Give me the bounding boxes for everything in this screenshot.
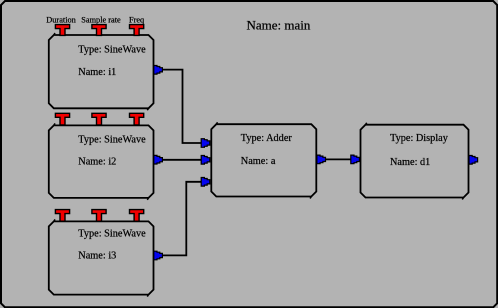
input port Freq of i1 (red T) xyxy=(129,25,143,36)
svg-text:Duration: Duration xyxy=(46,16,76,25)
block i3 (SineWave) body xyxy=(49,219,154,296)
block i1 (SineWave) body xyxy=(49,33,154,110)
output port of i1 (blue arrow) xyxy=(154,66,163,75)
input port 3 of i2 (red T) xyxy=(129,113,143,125)
input port 1 of i3 (red T) xyxy=(55,210,69,222)
input port 3 of i3 (red T) xyxy=(129,210,143,222)
wire i2 output to adder input 2 xyxy=(162,159,201,161)
input port 3 of adder a (blue arrow) xyxy=(201,178,210,187)
svg-text:Freq: Freq xyxy=(129,16,144,25)
wire adder output to d1 input xyxy=(325,158,351,160)
block d1 (Display) body xyxy=(361,123,469,200)
svg-text:Name: i1: Name: i1 xyxy=(78,67,116,78)
svg-text:Name: i2: Name: i2 xyxy=(78,157,116,168)
input port 2 of adder a (blue arrow) xyxy=(201,156,210,165)
block i2 (SineWave) body xyxy=(49,123,154,199)
wire i3 output to adder input 3 xyxy=(162,182,201,256)
svg-text:Name: main: Name: main xyxy=(247,17,311,32)
input port 1 of i2 (red T) xyxy=(55,113,69,125)
output port of i3 (blue arrow) xyxy=(154,251,163,260)
svg-text:Type: SineWave: Type: SineWave xyxy=(78,44,146,55)
svg-text:Type: SineWave: Type: SineWave xyxy=(78,229,146,240)
svg-text:Type: Display: Type: Display xyxy=(390,133,449,144)
output port of d1 (blue arrow) xyxy=(469,156,478,165)
block a (Adder) body xyxy=(211,122,316,198)
wire i1 output to adder input 1 xyxy=(162,70,201,143)
svg-text:Name: i3: Name: i3 xyxy=(78,251,116,262)
input port 1 of adder a (blue arrow) xyxy=(201,139,210,148)
input port 2 of i3 (red T) xyxy=(92,210,106,222)
input port 2 of i2 (red T) xyxy=(92,113,106,125)
output port of adder a (blue arrow) xyxy=(317,155,326,164)
input port of d1 (blue arrow) xyxy=(351,155,360,164)
svg-text:Name: a: Name: a xyxy=(241,156,276,167)
svg-text:Sample rate: Sample rate xyxy=(81,16,121,25)
svg-text:Type: SineWave: Type: SineWave xyxy=(78,134,146,145)
svg-text:Type: Adder: Type: Adder xyxy=(241,133,293,144)
input port Duration of i1 (red T) xyxy=(55,25,69,36)
svg-text:Name: d1: Name: d1 xyxy=(390,157,430,168)
input port Sample rate of i1 (red T) xyxy=(92,25,106,36)
output port of i2 (blue arrow) xyxy=(154,155,163,164)
